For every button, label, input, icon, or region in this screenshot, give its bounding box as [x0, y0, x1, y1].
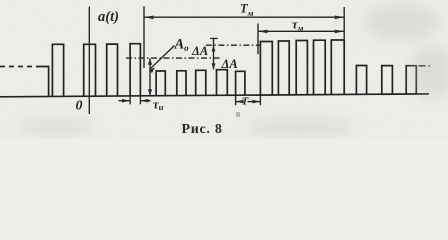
A0 pointer arrowhead — [149, 67, 155, 73]
pulse R2 — [278, 41, 289, 95]
Tm dimension line — [144, 16, 344, 18]
tau_i delimiter extensions below baseline — [129, 96, 131, 104]
T arrowhead left — [236, 100, 244, 104]
dA measuring arrow shaft with top tick — [213, 38, 215, 69]
upper envelope dash-dot line — [206, 44, 261, 46]
pulse P4 — [130, 44, 140, 96]
A0 pointer line — [150, 46, 175, 70]
pulse R5 (right edge doubles as Tm/tau_m right delimiter) — [331, 40, 344, 95]
A0 arrow top head — [148, 58, 152, 65]
small pulse S1 — [156, 71, 165, 96]
small pulse S5 — [236, 71, 245, 95]
tau_i left outside arrow line — [119, 100, 131, 102]
A0 measuring arrow shaft — [149, 58, 151, 96]
A0 dash-dot level line — [126, 57, 222, 59]
scan noise speck — [236, 112, 240, 117]
pulse R3 — [296, 41, 307, 95]
tau_i right outside arrow line — [140, 100, 150, 102]
tau_i arrowhead pointing left — [140, 99, 148, 103]
small pulse Q2 — [382, 66, 393, 95]
small pulse Q3 — [406, 66, 416, 94]
scan noise texture — [0, 0, 1, 1]
Tm left delimiter — [143, 6, 145, 68]
tau_m right arrowhead — [335, 30, 345, 34]
T delimiter extensions below baseline — [235, 95, 237, 105]
left envelope solid end + drop — [41, 67, 49, 97]
small pulse S3 — [196, 70, 206, 95]
tau_m left delimiter — [257, 24, 259, 55]
pulse R4 — [314, 40, 326, 94]
pulse P3 — [107, 44, 118, 96]
right dashed envelope continuation — [419, 65, 430, 67]
Tm right arrowhead — [335, 16, 345, 20]
dA arrow bottom head — [212, 63, 216, 69]
tau_m left arrowhead — [258, 30, 268, 34]
T dimension line (broken by label) — [236, 101, 241, 103]
small pulse S2 — [177, 71, 186, 96]
left dashed envelope segment — [0, 66, 41, 68]
pulse P2 — [84, 44, 96, 96]
time axis baseline — [0, 94, 429, 97]
tau_m dimension line — [258, 30, 344, 32]
T arrowhead right — [252, 100, 260, 104]
tau_i arrowhead pointing right — [122, 99, 130, 103]
Tm right delimiter (above pulse R5 edge) — [343, 7, 345, 40]
dA arrow top head — [212, 45, 216, 51]
small pulse Q1 — [356, 66, 366, 95]
small pulse S4 — [217, 70, 228, 96]
pulse P1 — [52, 44, 63, 96]
vertical axis — [88, 7, 90, 115]
Tm left arrowhead — [144, 16, 154, 20]
pulse R1 — [260, 42, 272, 96]
A0 arrow bottom head — [148, 89, 152, 96]
